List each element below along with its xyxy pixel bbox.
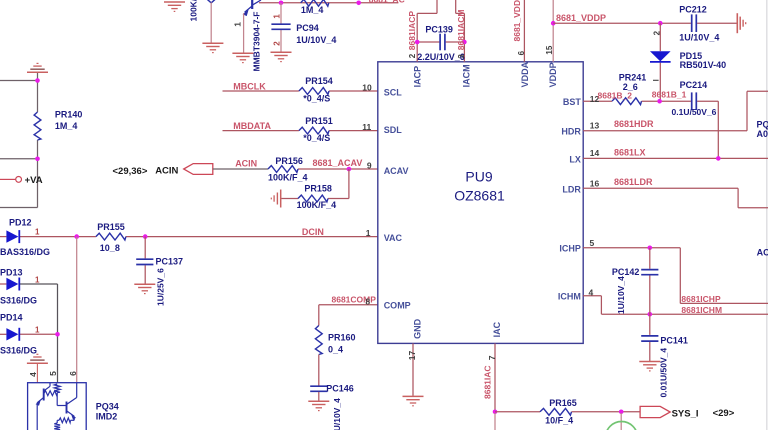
svg-text:1: 1 — [35, 325, 40, 334]
svg-text:IAC: IAC — [492, 321, 502, 337]
svg-text:PC137: PC137 — [156, 257, 184, 267]
svg-text:0.1U/50V_6: 0.1U/50V_6 — [672, 107, 717, 117]
svg-text:8681IAC: 8681IAC — [483, 365, 493, 399]
svg-text:2: 2 — [408, 53, 417, 58]
svg-text:LDR: LDR — [562, 185, 581, 195]
svg-text:PR160: PR160 — [328, 332, 356, 342]
svg-text:ACIN: ACIN — [155, 166, 178, 177]
svg-text:+VA: +VA — [25, 175, 43, 186]
svg-text:MBCLK: MBCLK — [233, 81, 266, 91]
svg-text:SYS_I: SYS_I — [672, 408, 699, 419]
svg-text:2: 2 — [273, 41, 282, 46]
svg-text:14: 14 — [590, 148, 600, 158]
svg-text:PC212: PC212 — [679, 5, 707, 15]
svg-text:*0_4/S: *0_4/S — [303, 93, 330, 103]
svg-text:1U/10V_4: 1U/10V_4 — [296, 35, 336, 45]
svg-text:10_8: 10_8 — [100, 243, 120, 253]
svg-text:RB501V-40: RB501V-40 — [680, 60, 727, 70]
svg-text:PD12: PD12 — [9, 218, 32, 228]
svg-text:PU9: PU9 — [465, 168, 492, 184]
svg-text:VAC: VAC — [384, 233, 403, 243]
svg-text:100K/: 100K/ — [189, 0, 199, 22]
svg-text:S316/DG: S316/DG — [0, 346, 37, 356]
svg-text:9: 9 — [367, 160, 372, 170]
svg-text:1: 1 — [35, 228, 40, 237]
svg-text:PR140: PR140 — [55, 110, 83, 120]
svg-text:17: 17 — [407, 350, 417, 360]
svg-text:PD13: PD13 — [0, 267, 23, 277]
svg-text:PR158: PR158 — [304, 184, 332, 194]
svg-text:S316/DG: S316/DG — [0, 296, 37, 306]
svg-text:16: 16 — [590, 178, 600, 188]
svg-text:6: 6 — [68, 371, 78, 376]
svg-text:ACIN: ACIN — [235, 159, 257, 169]
svg-text:4: 4 — [589, 287, 594, 297]
svg-text:100K/F_4: 100K/F_4 — [297, 200, 337, 210]
svg-text:8681LDR: 8681LDR — [614, 177, 653, 187]
svg-text:15: 15 — [545, 45, 554, 54]
svg-text:PC141: PC141 — [660, 335, 688, 345]
svg-text:8681B_1: 8681B_1 — [652, 89, 687, 99]
svg-text:AC: AC — [757, 248, 768, 258]
svg-text:0_4: 0_4 — [328, 344, 343, 354]
svg-text:1: 1 — [35, 275, 40, 284]
svg-text:PC142: PC142 — [612, 267, 640, 277]
svg-text:8681ICHP: 8681ICHP — [681, 294, 721, 304]
svg-text:5: 5 — [590, 238, 595, 248]
svg-text:8681IACM: 8681IACM — [456, 10, 466, 51]
svg-text:1: 1 — [233, 22, 243, 27]
svg-text:10/F_4: 10/F_4 — [545, 416, 573, 426]
svg-text:SCL: SCL — [384, 87, 403, 97]
svg-text:ICHM: ICHM — [558, 292, 581, 302]
svg-text:PR151: PR151 — [305, 116, 333, 126]
svg-text:VDDA: VDDA — [520, 61, 530, 87]
svg-text:MMBT3904-7-F: MMBT3904-7-F — [252, 12, 262, 72]
svg-text:<29,36>: <29,36> — [113, 166, 148, 177]
svg-text:HDR: HDR — [561, 127, 581, 137]
svg-text:BST: BST — [563, 97, 582, 107]
svg-text:PQ3: PQ3 — [757, 119, 768, 129]
svg-text:PC94: PC94 — [296, 23, 319, 33]
svg-text:4: 4 — [28, 372, 38, 377]
svg-text:PR155: PR155 — [97, 222, 125, 232]
svg-text:1M_4: 1M_4 — [55, 121, 78, 131]
svg-text:IACP: IACP — [413, 66, 423, 88]
svg-text:8681_AC: 8681_AC — [369, 0, 405, 4]
svg-text:ICHP: ICHP — [559, 244, 581, 254]
svg-text:OZ8681: OZ8681 — [454, 188, 505, 204]
svg-text:1: 1 — [273, 14, 282, 19]
svg-text:11: 11 — [362, 122, 371, 132]
svg-text:GND: GND — [413, 318, 423, 339]
svg-text:8681IACP: 8681IACP — [407, 11, 417, 51]
svg-text:8681_VDDA: 8681_VDDA — [512, 0, 522, 42]
svg-text:SDL: SDL — [384, 125, 403, 135]
svg-text:LX: LX — [569, 155, 581, 165]
svg-text:DCIN: DCIN — [302, 227, 324, 237]
svg-text:ACAV: ACAV — [384, 166, 409, 176]
svg-text:PC146: PC146 — [326, 384, 354, 394]
svg-text:PR165: PR165 — [549, 398, 577, 408]
svg-text:MBDATA: MBDATA — [233, 121, 271, 131]
svg-text:10: 10 — [362, 83, 372, 93]
svg-text:5: 5 — [48, 371, 58, 376]
svg-text:7: 7 — [487, 355, 497, 360]
svg-text:1U/10V_4: 1U/10V_4 — [679, 32, 719, 42]
svg-text:IACM: IACM — [462, 64, 472, 87]
svg-text:8681LX: 8681LX — [614, 148, 646, 158]
svg-text:PQ34: PQ34 — [96, 401, 119, 411]
svg-text:A03: A03 — [757, 129, 768, 139]
svg-text:PR156: PR156 — [275, 156, 303, 166]
svg-text:PC214: PC214 — [680, 80, 708, 90]
svg-text:1U/25V_6: 1U/25V_6 — [156, 268, 166, 306]
svg-text:PC139: PC139 — [425, 24, 453, 34]
svg-text:PR154: PR154 — [305, 76, 333, 86]
svg-text:1U/10V_4: 1U/10V_4 — [332, 398, 342, 430]
svg-text:VDDP: VDDP — [548, 62, 558, 87]
svg-text:*0_4/S: *0_4/S — [303, 133, 330, 143]
svg-text:1U/10V_4: 1U/10V_4 — [616, 276, 626, 314]
svg-text:2: 2 — [652, 30, 661, 35]
svg-text:BAS316/DG: BAS316/DG — [0, 247, 50, 257]
svg-text:6: 6 — [517, 50, 526, 55]
svg-text:1M_4: 1M_4 — [301, 5, 324, 15]
svg-text:1: 1 — [366, 228, 371, 238]
svg-text:8681HDR: 8681HDR — [614, 119, 654, 129]
svg-text:100K/F_4: 100K/F_4 — [268, 173, 308, 183]
svg-text:IMD2: IMD2 — [96, 412, 118, 422]
svg-text:8681ICHM: 8681ICHM — [681, 305, 722, 315]
svg-text:2_6: 2_6 — [623, 82, 638, 92]
svg-text:3: 3 — [457, 54, 466, 59]
svg-text:COMP: COMP — [384, 301, 411, 311]
svg-text:8: 8 — [365, 296, 370, 306]
svg-text:13: 13 — [590, 120, 600, 130]
svg-text:<29>: <29> — [713, 408, 735, 419]
svg-text:8681_ACAV: 8681_ACAV — [313, 158, 363, 168]
svg-text:8681_VDDP: 8681_VDDP — [556, 13, 606, 23]
svg-text:0.01U/50V_4: 0.01U/50V_4 — [659, 348, 669, 398]
svg-text:PD14: PD14 — [0, 312, 23, 322]
svg-text:PR241: PR241 — [619, 73, 647, 83]
